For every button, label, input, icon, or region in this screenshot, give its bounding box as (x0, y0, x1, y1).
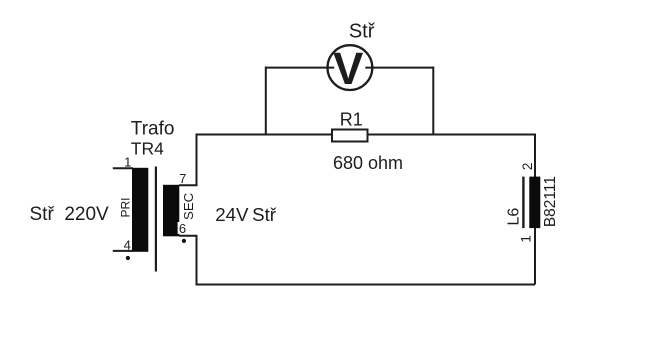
svg-text:Stř 220V: Stř 220V (30, 204, 110, 225)
wire voltmeter right drop (432, 67, 434, 135)
wire top rail left (197, 134, 333, 136)
polarity dot primary (126, 256, 130, 260)
wire pin 4 stub (113, 250, 133, 252)
svg-text:R1: R1 (340, 109, 363, 129)
svg-text:1: 1 (519, 235, 534, 243)
svg-text:7: 7 (179, 171, 186, 186)
polarity dot secondary (182, 239, 186, 243)
svg-text:PRI: PRI (119, 197, 133, 217)
wire bottom rail (196, 284, 536, 286)
svg-text:Stř: Stř (349, 20, 376, 42)
voltmeter V1 circle (328, 45, 373, 90)
svg-text:V: V (333, 43, 364, 94)
wire left vertical bottom (196, 236, 198, 285)
wire top rail right (368, 134, 536, 136)
wire pin 6 stub (179, 235, 198, 237)
svg-text:24V Stř: 24V Stř (215, 204, 277, 225)
inductor L6 body (529, 177, 540, 229)
svg-text:680 ohm: 680 ohm (333, 153, 403, 173)
wire voltmeter right (365, 67, 433, 69)
svg-text:2: 2 (520, 163, 535, 171)
transformer TR4 primary winding (132, 168, 148, 252)
wire voltmeter left drop (265, 67, 267, 135)
wire left vertical top (196, 134, 198, 186)
resistor R1 (332, 130, 368, 142)
pin label 6 (secondary) (178, 222, 188, 234)
wire voltmeter left (266, 67, 334, 69)
wire pin 1 stub (113, 167, 133, 169)
svg-text:1: 1 (124, 154, 131, 169)
inductor L6 core line (522, 177, 524, 229)
svg-text:6: 6 (179, 221, 186, 236)
transformer TR4 core (155, 167, 157, 272)
wire right vertical (534, 134, 536, 285)
svg-text:Trafo: Trafo (131, 119, 175, 140)
svg-text:SEC: SEC (181, 192, 196, 220)
transformer TR4 secondary winding (163, 185, 179, 237)
svg-text:TR4: TR4 (131, 138, 164, 158)
svg-text:4: 4 (124, 238, 131, 253)
wire pin 7 stub (179, 184, 198, 186)
svg-text:L6: L6 (506, 208, 523, 226)
svg-text:B82111: B82111 (542, 176, 559, 227)
